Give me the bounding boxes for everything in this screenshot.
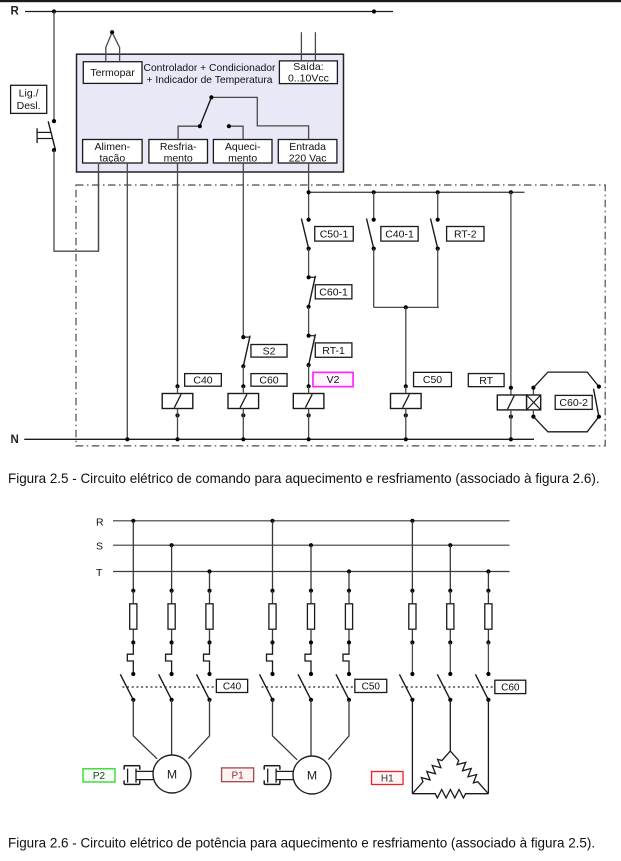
svg-text:M: M bbox=[167, 767, 177, 781]
svg-text:S: S bbox=[96, 541, 103, 553]
svg-text:Aqueci-: Aqueci- bbox=[225, 141, 261, 153]
svg-text:T: T bbox=[96, 567, 103, 579]
svg-text:Alimen-: Alimen- bbox=[95, 141, 131, 153]
svg-text:S2: S2 bbox=[263, 345, 276, 357]
svg-text:+ Indicador de Temperatura: + Indicador de Temperatura bbox=[146, 75, 272, 86]
svg-text:C60: C60 bbox=[501, 682, 520, 693]
svg-text:Saída:: Saída: bbox=[293, 61, 323, 73]
svg-text:RT: RT bbox=[479, 375, 493, 387]
svg-text:R: R bbox=[11, 5, 20, 17]
svg-text:tação: tação bbox=[100, 152, 126, 164]
svg-text:C40: C40 bbox=[193, 375, 212, 387]
svg-text:Lig./: Lig./ bbox=[19, 88, 39, 100]
svg-text:Entrada: Entrada bbox=[289, 141, 326, 153]
svg-text:Desl.: Desl. bbox=[17, 100, 41, 112]
svg-text:Figura 2.6 - Circuito elétrico: Figura 2.6 - Circuito elétrico de potênc… bbox=[8, 835, 595, 850]
svg-text:mento: mento bbox=[164, 152, 193, 164]
svg-text:N: N bbox=[11, 434, 19, 446]
svg-text:Resfria-: Resfria- bbox=[160, 141, 197, 153]
svg-text:P2: P2 bbox=[93, 771, 106, 782]
svg-text:C60-2: C60-2 bbox=[559, 397, 588, 409]
svg-text:mento: mento bbox=[228, 152, 257, 164]
svg-text:C40: C40 bbox=[223, 681, 242, 692]
svg-text:Controlador + Condicionador: Controlador + Condicionador bbox=[144, 63, 277, 74]
svg-text:V2: V2 bbox=[327, 374, 340, 386]
svg-text:H1: H1 bbox=[381, 774, 394, 785]
svg-text:R: R bbox=[96, 516, 104, 528]
svg-text:C50-1: C50-1 bbox=[320, 228, 349, 240]
svg-text:RT-2: RT-2 bbox=[454, 228, 477, 240]
svg-text:C50: C50 bbox=[423, 374, 442, 386]
svg-text:C50: C50 bbox=[362, 681, 381, 692]
svg-text:C40-1: C40-1 bbox=[385, 228, 414, 240]
svg-text:0..10Vcc: 0..10Vcc bbox=[288, 72, 329, 84]
svg-text:RT-1: RT-1 bbox=[322, 345, 345, 357]
svg-text:C60: C60 bbox=[259, 375, 278, 387]
svg-text:220 Vac: 220 Vac bbox=[289, 152, 327, 164]
svg-text:C60-1: C60-1 bbox=[319, 286, 348, 298]
svg-text:P1: P1 bbox=[231, 770, 244, 781]
svg-text:M: M bbox=[307, 768, 317, 782]
svg-text:Figura 2.5 - Circuito elétrico: Figura 2.5 - Circuito elétrico de comand… bbox=[8, 471, 600, 486]
svg-text:Termopar: Termopar bbox=[90, 67, 135, 79]
